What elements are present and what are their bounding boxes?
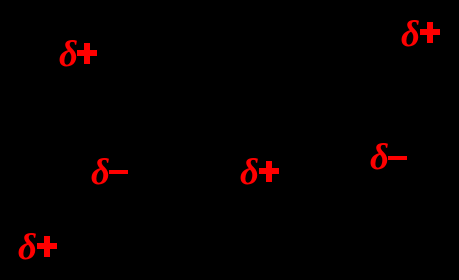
partial charge delta (bottom-left) <box>18 229 37 266</box>
partial charge delta (top-left) <box>59 36 78 73</box>
plus sign (top-right) <box>420 22 440 43</box>
plus sign (center) <box>259 161 279 182</box>
minus sign (middle-left) <box>109 170 128 174</box>
minus sign (middle-right) <box>388 156 407 160</box>
partial charge delta (middle-left) <box>91 154 110 191</box>
plus sign (bottom-left) <box>37 236 57 257</box>
plus sign (top-left) <box>77 43 97 64</box>
partial charge delta (middle-right) <box>370 139 389 176</box>
partial charge delta (center) <box>240 154 259 191</box>
partial charge delta (top-right) <box>401 16 420 53</box>
